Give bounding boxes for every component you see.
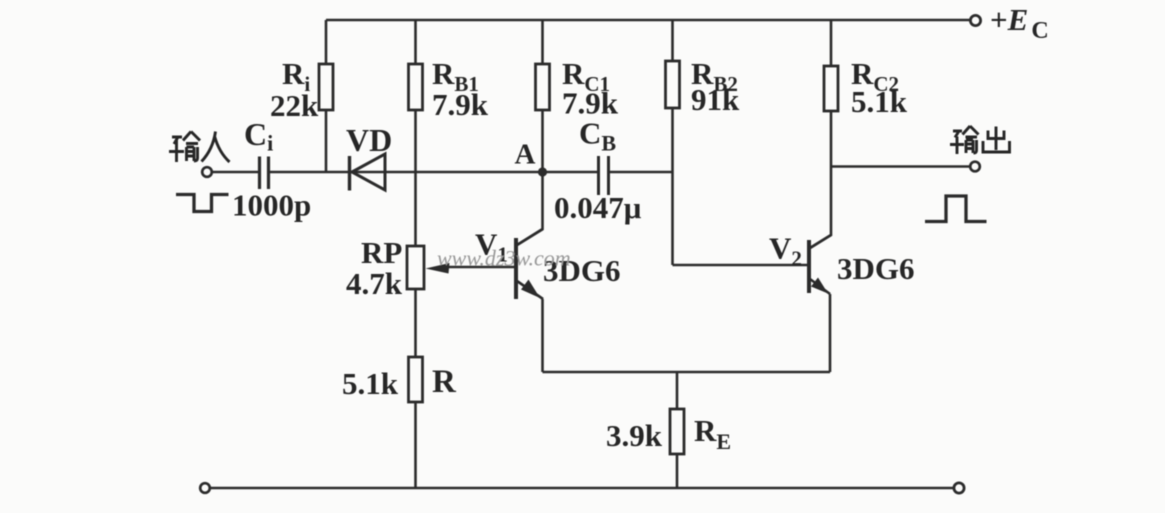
resistor RC2 5.1k: [824, 56, 908, 119]
label input pulse symbol: [176, 195, 229, 212]
capacitor Ci 1000p: [232, 116, 311, 223]
wire R_C1 branch: [541, 20, 544, 172]
terminal +Ec: [970, 2, 1048, 44]
svg-text:0.047μ: 0.047μ: [554, 190, 642, 225]
node A junction dot: [515, 139, 548, 177]
label output pulse symbol: [925, 196, 987, 222]
svg-text:3.9k: 3.9k: [606, 418, 663, 453]
svg-text:91k: 91k: [691, 82, 740, 117]
svg-text:RE: RE: [694, 413, 731, 454]
svg-text:Ci: Ci: [244, 116, 273, 156]
wire R_C2 branch: [830, 20, 833, 167]
wire diode to node A: [351, 171, 543, 174]
terminal ground left: [200, 483, 210, 493]
wire C_i to diode: [270, 171, 348, 174]
resistor R 5.1k: [342, 357, 457, 402]
wire common emitter rail: [543, 371, 831, 374]
svg-text:www.dz3w.com: www.dz3w.com: [437, 246, 571, 271]
svg-text:A: A: [515, 139, 536, 171]
svg-text:R: R: [432, 364, 457, 400]
terminal input: [202, 167, 212, 177]
wire top supply rail: [326, 19, 971, 22]
capacitor CB 0.047u: [554, 116, 642, 226]
svg-text:V2: V2: [769, 231, 802, 271]
resistor RB1 7.9k: [409, 56, 489, 122]
wire node A to C_B: [543, 171, 598, 174]
svg-text:4.7k: 4.7k: [346, 266, 403, 301]
diode VD: [346, 122, 392, 191]
wire R_i branch: [325, 20, 328, 172]
wire V2 emitter down: [829, 294, 832, 372]
wire output run: [831, 165, 971, 168]
terminal ground right: [954, 483, 964, 493]
svg-text:5.1k: 5.1k: [851, 84, 908, 119]
svg-text:+EC: +EC: [990, 2, 1049, 44]
wire input run: [212, 171, 259, 174]
svg-text:5.1k: 5.1k: [342, 366, 399, 401]
label output (Chinese shu-chu): [950, 126, 1010, 154]
wire C_B to R_B2 line: [609, 171, 673, 174]
resistor RE 3.9k: [606, 409, 731, 454]
wire output junction to V2 collector: [810, 167, 831, 249]
wire R_E branch: [676, 372, 679, 488]
label input (Chinese shu-ru): [169, 132, 230, 163]
svg-text:22k: 22k: [270, 88, 319, 123]
resistor Ri 22k: [270, 56, 333, 123]
terminal output: [970, 162, 980, 172]
transistor Q V2 3DG6: [769, 231, 915, 295]
wire node A to V1 collector: [517, 172, 543, 245]
svg-text:CB: CB: [579, 116, 616, 156]
svg-text:RP: RP: [361, 235, 402, 270]
wire V1 emitter down: [541, 299, 544, 372]
svg-text:3DG6: 3DG6: [837, 251, 915, 286]
wire R_B2 branch down: [671, 20, 674, 265]
svg-text:7.9k: 7.9k: [432, 87, 489, 122]
resistor RC1 7.9k: [536, 56, 619, 121]
wire V2 base run: [673, 264, 808, 267]
svg-text:1000p: 1000p: [232, 188, 311, 223]
resistor RB2 91k: [666, 56, 741, 117]
svg-text:VD: VD: [346, 122, 392, 158]
potentiometer RP 4.7k: [346, 235, 514, 301]
transistor Q V1 3DG6: [475, 227, 621, 300]
wire R_B1 / RP / R branch: [414, 20, 417, 488]
wire bottom ground rail: [210, 487, 955, 490]
